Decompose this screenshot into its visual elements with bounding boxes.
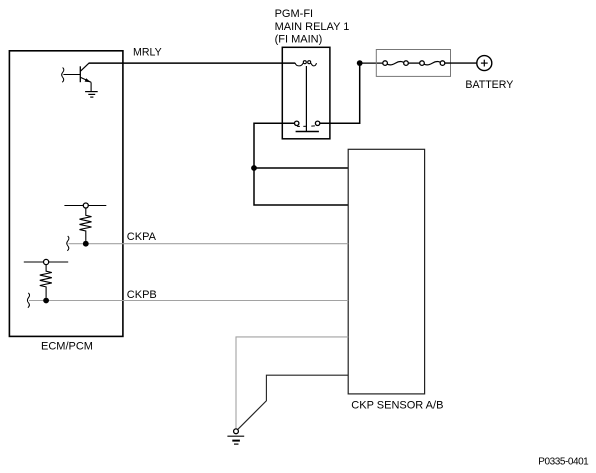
wire Q1 emitter to ground [90, 82, 92, 91]
wire node B to CKP sensor upper feed [254, 167, 348, 169]
svg-text:ECM/PCM: ECM/PCM [41, 341, 93, 353]
CKPA pull-up rail [64, 205, 106, 207]
relay contact blade (dashed) [297, 125, 315, 128]
resistor R2 (CKPB pull-up) [40, 265, 52, 298]
CKP sensor box [348, 149, 424, 394]
svg-text:CKP SENSOR A/B: CKP SENSOR A/B [351, 400, 443, 412]
wire node A down to right contact [320, 63, 360, 123]
break squiggle Q1 base [62, 68, 64, 83]
battery (+) terminal [477, 56, 492, 71]
resistor R1 (CKPA pull-up) [80, 208, 92, 241]
node A junction [357, 60, 363, 66]
break squiggle CKPA [67, 236, 69, 251]
svg-text:(FI MAIN): (FI MAIN) [275, 33, 323, 45]
ground G2 [227, 436, 244, 444]
break squiggle CKPB [27, 293, 29, 308]
fuse F1 [383, 61, 409, 66]
svg-text:MAIN RELAY 1: MAIN RELAY 1 [275, 21, 350, 33]
ground terminal circle [234, 429, 239, 434]
wire MRLY [89, 62, 296, 64]
wire CKPB (gray) [29, 300, 348, 302]
node CKPB [43, 298, 49, 304]
relay coil L1 [295, 61, 316, 66]
fuse box [376, 50, 450, 77]
label PGM-FI MAIN RELAY 1 (FI MAIN) [275, 8, 350, 45]
svg-text:P0335-0401: P0335-0401 [538, 456, 589, 467]
CKPB pull-up rail [24, 261, 68, 263]
svg-text:PGM-FI: PGM-FI [275, 8, 314, 20]
fuse F2 [420, 61, 445, 66]
node CKPA [83, 241, 89, 247]
svg-text:CKPA: CKPA [127, 231, 157, 243]
relay box PGM-FI MAIN RELAY 1 [282, 47, 330, 139]
node B junction [251, 165, 257, 171]
ground G1 [85, 92, 98, 98]
svg-text:MRLY: MRLY [133, 47, 162, 59]
wire fuse box to battery [445, 62, 477, 64]
svg-text:CKPB: CKPB [127, 289, 157, 301]
terminal circle CKPB pull-up [44, 259, 49, 264]
transistor Q1 [63, 63, 91, 82]
wire sensor ground B [238, 375, 348, 429]
wire between fuses [408, 62, 420, 64]
relay armature [296, 66, 319, 132]
wire node A to fuse box [360, 62, 384, 64]
ECM/PCM box [9, 51, 123, 337]
svg-text:BATTERY: BATTERY [465, 79, 513, 91]
relay contact right [315, 121, 319, 125]
wire left contact to node B [254, 123, 348, 205]
terminal circle CKPA pull-up [83, 203, 88, 208]
wire sensor ground A (gray) [236, 337, 348, 429]
wire CKPA (gray) [69, 243, 349, 245]
relay contact left [295, 121, 299, 125]
